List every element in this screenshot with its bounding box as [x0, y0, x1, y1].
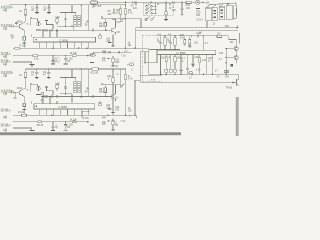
resistor R31 — [184, 36, 186, 46]
wire rail A (mains/top rail) — [98, 1, 196, 3]
ground C13 — [63, 63, 67, 65]
microphone MIC2 — [37, 86, 40, 91]
svg-text:混合输入: 混合输入 — [1, 108, 12, 112]
capacitor C6 series on rail A — [133, 1, 134, 4]
label 50u cap — [87, 21, 88, 22]
resistor R36 series oval — [72, 121, 76, 123]
meter M1 — [196, 0, 200, 4]
capacitor plate x113 bottom — [111, 129, 114, 131]
svg-text:C34: C34 — [219, 52, 224, 55]
capacitor C10 (x182) — [180, 2, 183, 14]
wire center bottom line — [149, 49, 180, 51]
node rail A x151 — [150, 2, 152, 4]
capacitor C12 chain x53 — [52, 56, 55, 64]
svg-text:220: 220 — [133, 7, 138, 10]
switch contact S1b — [120, 18, 124, 22]
transistor Q6 9014 ch2 — [19, 88, 25, 96]
node x226 base Q5 — [226, 57, 227, 58]
resistor R28 56k ch2 — [104, 85, 107, 97]
capacitor dark plate x46.5 — [45, 20, 48, 22]
node x46.5 ch2 — [46, 90, 47, 91]
capacitor C13 chain x65.6 — [64, 56, 67, 64]
node rail A x182 — [181, 2, 183, 4]
wire input line 4lu ch2 — [13, 121, 89, 123]
switch common nodes — [155, 6, 156, 7]
dashed enclosure center — [143, 35, 162, 81]
wire Q1 emitter chain — [23, 30, 24, 37]
oval resistor on rail2 — [92, 68, 99, 71]
svg-text:1k 10k: 1k 10k — [70, 52, 78, 55]
nodes center bottom — [164, 49, 165, 50]
wire sub-line to transformer — [60, 5, 76, 15]
label 473 dark — [90, 61, 94, 63]
wire x135 drop from bus start — [135, 31, 137, 48]
wire center top line — [156, 35, 229, 37]
svg-text:C31 4: C31 4 — [196, 18, 203, 21]
RC group B capacitor branch — [169, 36, 172, 50]
ground input line B ch2 — [30, 129, 35, 131]
svg-text:202: 202 — [186, 7, 191, 10]
svg-text:1.5k: 1.5k — [55, 16, 60, 19]
svg-text:IC 8505: IC 8505 — [177, 51, 187, 55]
component boxes above bus — [165, 69, 168, 72]
capacitor on pin x187 — [186, 69, 189, 75]
node base ch2 — [14, 92, 15, 93]
diode D3 box ch2 — [99, 101, 102, 105]
switch contact ch2 — [120, 84, 124, 88]
nodes on yD2 — [107, 115, 108, 116]
op-amp IC3 box — [34, 104, 95, 109]
wire Q4 to Q5 — [235, 51, 237, 56]
wire x226 vertical — [226, 49, 234, 75]
wire x120.6 drop ch2 — [120, 69, 122, 85]
node x65.6 on input line — [65, 55, 66, 56]
nodes on yD — [52, 48, 53, 49]
node rail x81.25 — [81, 4, 82, 5]
node ch2 sub x65.6 — [65, 77, 66, 78]
wire main bus y73 — [149, 73, 239, 75]
ground x182 — [180, 13, 183, 15]
svg-text:1路: 1路 — [3, 92, 7, 96]
wire to ground — [165, 15, 167, 20]
wire x203 drop to IC2 — [202, 36, 204, 50]
node x53 ch2 input — [52, 121, 53, 122]
node center x203 — [203, 35, 204, 36]
IC2 box — [157, 50, 216, 54]
node on rail at x25.6 — [25, 4, 27, 6]
capacitor C45 chain — [52, 122, 55, 130]
resistor R9 series on yD — [15, 47, 19, 49]
wire bias branch — [47, 25, 54, 29]
svg-text:100: 100 — [196, 14, 201, 17]
capacitor small above Q1 — [15, 21, 17, 25]
IC2 pins down — [161, 55, 213, 75]
bottom gray band — [0, 132, 181, 135]
switch contact S1a — [145, 17, 150, 21]
svg-text:1路: 1路 — [3, 8, 7, 12]
label 50u ch2 — [87, 88, 88, 89]
capacitor C8 (x65.6) — [64, 13, 67, 27]
ground below C21 — [35, 77, 39, 79]
resistor R5 emitter — [23, 36, 26, 40]
scrollbar fragment — [236, 97, 239, 136]
resistor R29 x125.6 ch2 — [124, 69, 127, 115]
wire corner to Q4 collector — [229, 36, 236, 46]
wire x136 drop to bus — [135, 2, 137, 31]
svg-text:+38: +38 — [205, 1, 210, 4]
transistor Q2 — [112, 19, 116, 35]
nodes on bus — [160, 74, 161, 75]
svg-text:混合输入: 混合输入 — [1, 123, 12, 127]
node rail B x125.6 — [125, 5, 126, 6]
wire mid line ch1 — [57, 26, 74, 30]
svg-text:R7 203: R7 203 — [94, 5, 102, 8]
arrow on line ch2 — [87, 121, 90, 123]
wire transformer to bus — [206, 21, 208, 28]
capacitor C28 (x65.6 ch2) — [64, 78, 67, 94]
capacitor series center — [198, 35, 199, 38]
node x226 base Q4 — [226, 48, 227, 49]
svg-text:R21 65: R21 65 — [90, 72, 98, 75]
wire ch2 to center link — [138, 75, 141, 77]
resistor x113 mid — [112, 56, 114, 66]
capacitor series marks y52 — [104, 51, 110, 54]
ground below R32 — [188, 45, 192, 47]
ground C46 — [63, 129, 67, 131]
capacitor C5 series on L2 — [93, 29, 94, 32]
svg-text:1路: 1路 — [3, 128, 7, 132]
fuse FU1 — [90, 1, 98, 4]
wire LY1 — [140, 74, 161, 76]
capacitor C2 — [47, 4, 50, 12]
small box component — [41, 92, 44, 94]
wire input line 4lu ch1 — [13, 55, 88, 57]
svg-text:4路: 4路 — [3, 115, 7, 119]
wire corner box right of IC3 — [82, 111, 90, 117]
wire L2 bias line ch2 — [41, 96, 112, 98]
capacitor plate x113 mid — [111, 65, 114, 67]
microphone MIC1 — [37, 21, 40, 26]
node x226 y62.8 — [226, 62, 227, 63]
resistor on pin x199.8 — [199, 58, 201, 63]
IC3 bottom pins — [39, 109, 89, 115]
node x81.25 y96.9 — [81, 96, 82, 97]
node x72 on mid line — [71, 26, 72, 27]
connector oval on input line end — [90, 54, 95, 57]
ground x166 — [164, 19, 168, 21]
svg-text:1k 10k: 1k 10k — [70, 118, 78, 121]
resistor on pin x175 — [174, 57, 176, 62]
resistor R33 series — [217, 35, 222, 37]
capacitor marks on L2 ch2 — [43, 95, 58, 98]
capacitor C1 — [35, 4, 38, 12]
wire Q5 emitter down — [236, 60, 238, 64]
capacitor C12 polarized plate — [51, 63, 55, 65]
capacitor C45 plate — [51, 129, 55, 131]
wire x81.25 drop — [80, 5, 82, 26]
node rail A x136 — [135, 2, 137, 4]
svg-text:1路: 1路 — [3, 73, 7, 77]
RC group A resistor — [164, 35, 166, 49]
wire input line 1lu ch1 — [13, 62, 32, 64]
svg-text:7 1k: 7 1k — [121, 54, 126, 57]
wire yD2 return line ch2 — [13, 115, 136, 118]
capacitor polarized bar x113 — [112, 35, 114, 46]
capacitor plate x113 low — [111, 111, 114, 113]
switch row 3 contacts — [146, 11, 156, 14]
capacitor C30 plate — [196, 8, 200, 10]
svg-text:C: C — [117, 73, 119, 76]
ground below MIC2 — [36, 93, 41, 95]
svg-text:1.5k: 1.5k — [55, 82, 60, 85]
label dark 473 — [90, 124, 94, 126]
transistor Q1 9014 — [19, 22, 25, 30]
capacitor C25 series on L2 ch2 — [93, 95, 94, 98]
svg-text:1C: 1C — [127, 65, 130, 67]
resistor R11 series oval — [33, 55, 38, 57]
node rail A x125.6 — [125, 2, 127, 4]
node x65.6 y93.8 — [65, 93, 66, 94]
resistor R25 emitter ch2 — [23, 103, 26, 106]
diamond mark — [41, 99, 43, 101]
RC group B resistor — [174, 35, 176, 49]
svg-text:C 5058: C 5058 — [60, 39, 69, 43]
small cap marks x114 y12 — [113, 9, 116, 14]
switch common wire — [155, 2, 157, 13]
capacitor on pin x181 — [180, 69, 183, 74]
resistor R1 — [25, 5, 27, 22]
dark mark — [108, 120, 110, 122]
capacitor ground on pin x193 — [192, 63, 195, 65]
svg-text:1路: 1路 — [3, 62, 7, 66]
wire right edge stub — [238, 33, 240, 44]
node rail2 x125.6 — [125, 68, 126, 69]
wire x166 drop — [165, 2, 167, 12]
wire Q6 emitter chain — [23, 96, 24, 103]
IC1 pin1 dot — [36, 39, 37, 40]
wire yD return line ch1 — [13, 47, 149, 49]
svg-text:C36: C36 — [195, 57, 200, 59]
wire x191 to IC2 — [190, 36, 192, 37]
IC1 bottom pins — [39, 42, 89, 48]
node x65.6 ch2 input — [65, 121, 66, 122]
node y18.9 x141 — [140, 18, 141, 19]
svg-text:+C10: +C10 — [196, 33, 202, 35]
svg-text:R 10k: R 10k — [18, 111, 25, 114]
wire base line Q5 — [226, 56, 234, 58]
capacitor C46 chain — [64, 122, 67, 130]
bus end arrow — [237, 27, 239, 29]
node connector — [144, 62, 145, 63]
op-amp IC1 box — [33, 37, 95, 42]
label +38 output — [203, 2, 205, 4]
capacitor C4 plate (polarized) — [23, 40, 25, 42]
node x53 on input line — [52, 55, 53, 56]
resistor R3 (vertical, x120.6) — [119, 5, 122, 19]
wire LZ long line — [140, 81, 236, 83]
node ch2 x81.25 — [81, 68, 82, 69]
node rail A x166 — [165, 2, 167, 4]
wire x135 vertical ch2 — [135, 80, 140, 115]
svg-text:104: 104 — [107, 13, 112, 16]
capacitor marks on L2 — [43, 29, 58, 32]
selector switch dashed enclosure — [143, 3, 174, 15]
svg-text:9014: 9014 — [17, 21, 23, 24]
resistor R6 (x57 vertical) — [56, 17, 58, 25]
capacitor C7 series on rail A — [173, 1, 174, 4]
ground input line B — [30, 64, 35, 66]
wire rail A to rail B link — [125, 2, 127, 5]
wire rail B (V+ rail channel 1) — [10, 4, 127, 6]
paper background — [0, 0, 240, 136]
dark mark right end — [118, 51, 120, 53]
transistor Q7 ch2 — [112, 85, 116, 101]
transistor Q3 — [236, 79, 238, 86]
node x113 y69 — [112, 68, 113, 69]
capacitor dark bar — [108, 41, 111, 43]
resistor R8 56k — [104, 19, 107, 30]
arrow on LZ — [233, 82, 236, 84]
capacitor dark bar ch2 — [108, 108, 111, 110]
wire collector line y18.9 — [102, 16, 141, 19]
resistor R21 (x25.6 ch2) — [24, 69, 27, 88]
wire bus upper to right edge — [136, 25, 238, 28]
wire collector line ch2 — [102, 83, 120, 85]
node x46.5 — [46, 24, 47, 25]
IC1 top pins — [31, 30, 57, 37]
capacitor C23 input coupling ch2 — [9, 91, 19, 94]
capacitor C24 plate — [23, 107, 25, 109]
capacitor bank in selector — [169, 3, 170, 8]
node L2 pins — [42, 30, 43, 31]
resistor R32 — [189, 36, 191, 46]
node L2 ch2 x106 — [105, 96, 106, 97]
resistor R4 (vertical, x125.6) — [124, 5, 127, 19]
svg-text:C 5058: C 5058 — [59, 105, 68, 109]
connector zone verticals — [140, 50, 157, 83]
svg-text:6 1k: 6 1k — [34, 58, 39, 61]
capacitor small below node — [14, 93, 17, 99]
resistor R26 (x57 ch2) — [56, 83, 58, 90]
transistor Q4 — [234, 47, 238, 51]
svg-text:R 47k: R 47k — [82, 117, 89, 120]
capacitor dark mark on y18.9 — [112, 18, 116, 20]
IC3 pin1 dot — [36, 106, 37, 107]
wire x88.7 drop — [88, 5, 90, 30]
wire top line ch2 area — [90, 52, 131, 55]
wire x81.25 drop ch2 — [80, 69, 82, 97]
resistor R22 x113 ch2 — [112, 69, 114, 112]
ground below C22 — [47, 77, 51, 79]
resistor R35 series oval — [38, 121, 43, 123]
dark component square — [231, 64, 233, 66]
resistor on pin x166 — [165, 57, 167, 62]
resistor x113 low ch2 — [112, 119, 114, 130]
svg-text:TR 80: TR 80 — [226, 86, 233, 89]
wire bus lower to right edge — [136, 30, 238, 32]
wire/corner mic2 bias — [31, 83, 38, 91]
svg-text:9014: 9014 — [17, 87, 23, 90]
capacitor C3 input coupling — [9, 25, 19, 28]
resistor R10 series on rail A — [186, 1, 191, 3]
oval tag on bus — [189, 71, 193, 73]
svg-text:7 1k: 7 1k — [120, 120, 125, 123]
node x65.6 on mid line — [65, 26, 66, 27]
wire x125.6 drop to yD — [125, 19, 127, 48]
dark mark mid — [108, 57, 110, 59]
wire/corner mic bias — [31, 17, 38, 26]
RC group A capacitor branch — [159, 36, 162, 50]
resistor R12 series oval — [72, 55, 76, 57]
arrow on line — [87, 55, 90, 57]
node y18.9 x125.6 — [125, 18, 126, 19]
arrow on yD2 — [51, 114, 54, 116]
wire bias branch ch2 — [47, 91, 54, 95]
transistor Q5 — [234, 56, 238, 60]
IC3 top pins — [31, 97, 57, 104]
node sub-line x65.6 — [65, 12, 66, 13]
transformer T1 windings — [74, 15, 81, 27]
svg-text:4.7k: 4.7k — [128, 12, 133, 15]
diode D1 box — [165, 12, 168, 15]
node L2 ch2 pins — [42, 96, 43, 97]
wire input line 1lu ch2 — [13, 128, 32, 130]
svg-text:50V: 50V — [172, 10, 177, 12]
svg-text:4路: 4路 — [3, 54, 7, 58]
switch row 4 contact below box — [151, 17, 155, 20]
node L2 x106 — [105, 30, 106, 31]
wire x141 drop to bus — [140, 19, 142, 28]
svg-text:R 10k: R 10k — [20, 44, 27, 47]
wire bus corner down to Q3 — [238, 74, 240, 79]
wire ch2 rail corner — [60, 69, 76, 81]
svg-text:R47: R47 — [102, 117, 107, 120]
wire mid line ch2 — [60, 94, 72, 103]
ground below C2 — [47, 12, 51, 14]
capacitor C22 — [47, 68, 50, 77]
ground below MIC1 — [36, 29, 41, 31]
resistor R34 series oval ch2 — [22, 114, 27, 116]
oval label ch2 — [130, 63, 134, 66]
transformer T2 windings — [74, 81, 81, 93]
node center x191 — [191, 35, 192, 36]
label C12 dashed box — [55, 58, 60, 63]
svg-text:1路: 1路 — [3, 26, 7, 30]
wire rail ch2 — [26, 68, 126, 70]
diode D2 box — [99, 33, 102, 38]
power transformer 3D box — [206, 3, 237, 21]
capacitor C21 — [35, 68, 38, 77]
svg-text:R9 2k: R9 2k — [37, 124, 44, 127]
wire L2 bias line ch1 — [41, 29, 112, 31]
switch row 1 contacts — [146, 4, 156, 7]
ground below C1 — [35, 12, 39, 14]
capacitor dark plate x46.5 ch2 — [45, 86, 48, 88]
wire x88.7 drop ch2 — [88, 69, 90, 97]
switch row 2 contacts — [146, 7, 156, 10]
transformer winding labels (dark marks) — [214, 9, 224, 18]
wire meter out — [200, 1, 203, 3]
